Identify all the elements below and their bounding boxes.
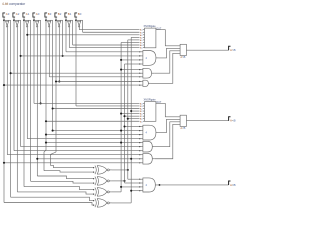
svg-text:A<B: A<B <box>180 126 185 130</box>
svg-text:A=B: A=B <box>230 183 236 187</box>
and gate AND4 <box>143 125 156 140</box>
wire output A=B <box>160 184 229 186</box>
wire rail A0c <box>40 20 42 103</box>
wire feed <box>73 44 140 46</box>
wire rail B3i <box>48 27 50 77</box>
wire staircase lane <box>4 203 94 206</box>
wire rail B2i <box>58 27 60 81</box>
wire staircase lane <box>17 192 94 194</box>
wire U2 out <box>156 103 180 116</box>
wire B1 fanout <box>66 19 73 21</box>
wire X2 net <box>112 180 125 182</box>
wire feed <box>79 29 139 31</box>
svg-text:A>B: A>B <box>180 55 185 59</box>
wire rail B2 <box>55 20 57 152</box>
inverter B3 <box>48 21 51 25</box>
wire feed <box>27 138 139 140</box>
wire B2 fanout <box>56 19 63 21</box>
wire and6 out <box>155 124 180 158</box>
wire feed <box>125 126 140 128</box>
input pin B3 <box>45 13 47 17</box>
wire U1 out <box>156 30 180 46</box>
wire staircase lane <box>24 187 94 190</box>
wire feed <box>4 162 140 164</box>
or gate OR1 <box>180 44 186 55</box>
input pin A2 <box>13 13 15 17</box>
node A0 <box>33 19 35 21</box>
wire feed <box>131 110 139 112</box>
wire mid rail M1 <box>120 42 122 191</box>
and gate AND6 <box>143 153 152 164</box>
input pin A1 <box>23 13 25 17</box>
node B1 <box>65 19 67 21</box>
wire rail A2c <box>20 20 22 146</box>
xnor gate XNOR3 <box>95 188 96 197</box>
wire mid rail M2 <box>124 64 126 183</box>
wire feed <box>66 51 140 53</box>
wire rail B0c <box>82 20 84 32</box>
svg-text:A3: A3 <box>6 12 10 16</box>
wire rail B1c <box>72 20 74 45</box>
wire feed <box>131 36 139 38</box>
wire feed <box>121 69 140 71</box>
wire output A&lt;B <box>186 120 228 122</box>
input pin A3 <box>3 13 5 17</box>
svg-text:A2: A2 <box>16 12 20 16</box>
xnor gate XNOR2 <box>95 177 96 186</box>
xnor gate XNOR4 <box>95 199 96 208</box>
inverter A0 <box>36 21 39 25</box>
inverter A2 <box>16 21 19 25</box>
svg-text:A>B: A>B <box>230 48 236 52</box>
wire feed <box>46 134 140 136</box>
wire mid rail M3 <box>127 40 129 179</box>
node B2 <box>55 19 57 21</box>
svg-text:XNORgate: XNORgate <box>144 99 157 102</box>
wire rail A0 <box>33 20 35 103</box>
wire and4 out <box>159 119 181 132</box>
wire pin B1 <box>65 17 67 20</box>
node A3 <box>3 19 5 21</box>
wire rail B3 <box>45 20 47 150</box>
node AND7 out <box>159 184 161 186</box>
output pin A=B <box>229 181 231 185</box>
and gate AND7 <box>143 178 155 192</box>
wire staircase lane <box>37 176 94 179</box>
wire feed <box>34 102 140 104</box>
wire feed <box>11 72 140 74</box>
wire pin A1 <box>23 17 25 20</box>
wire feed <box>125 63 140 65</box>
input pin A0 <box>33 13 35 17</box>
svg-text:B0: B0 <box>78 12 82 16</box>
wire B2 jog <box>50 152 56 165</box>
output pin A&gt;B <box>229 46 231 50</box>
input pin B1 <box>65 13 67 17</box>
wire mid rail M4 <box>130 37 132 203</box>
wire rail A3 <box>3 20 5 202</box>
wire rail A1i <box>26 27 28 139</box>
wire feed <box>128 178 140 180</box>
wire and3 out <box>151 53 180 83</box>
svg-text:4-bit comparator: 4-bit comparator <box>2 2 26 6</box>
wire feed <box>76 105 140 107</box>
wire feed <box>46 142 140 144</box>
subcircuit box U1 <box>145 28 156 48</box>
wire feed <box>121 41 139 43</box>
svg-text:XNORgate: XNORgate <box>144 25 157 28</box>
wire staircase lane <box>11 197 95 201</box>
and gate AND2 <box>143 68 152 78</box>
wire feed <box>7 154 139 156</box>
wire feed <box>121 59 140 61</box>
wire staircase lane <box>44 171 94 172</box>
wire rail A3i <box>6 27 8 155</box>
wire pin B0 <box>75 17 77 20</box>
svg-text:A<B: A<B <box>230 119 236 123</box>
wire B0 fanout <box>76 19 83 21</box>
svg-text:A1: A1 <box>26 12 30 16</box>
node A2 <box>13 19 15 21</box>
wire feed <box>69 47 139 49</box>
wire feed <box>121 186 140 188</box>
wire feed <box>121 113 139 115</box>
svg-text:B3: B3 <box>48 12 52 16</box>
node B3 <box>45 19 47 21</box>
wire feed <box>21 55 140 57</box>
wire A2 fanout <box>14 19 21 21</box>
wire and1 out <box>159 48 181 58</box>
or gate OR2 <box>180 115 186 126</box>
subcircuit box U2 <box>145 102 156 122</box>
wire feed <box>21 146 140 148</box>
wire feed <box>56 81 140 83</box>
inverter B2 <box>58 21 61 25</box>
wire A3 fanout <box>4 19 11 21</box>
and gate AND1 <box>143 51 156 66</box>
inverter B0 <box>78 21 81 25</box>
node B2c join <box>62 55 64 57</box>
wire staircase lane <box>31 181 95 183</box>
node A1 <box>23 19 25 21</box>
node A0c join <box>40 102 42 104</box>
wire rail A3c <box>10 20 12 197</box>
wire rail A1c <box>30 20 32 181</box>
wire rail A0i <box>36 27 38 176</box>
wire rail A1 <box>23 20 25 186</box>
svg-text:A0: A0 <box>36 12 40 16</box>
wire pin A2 <box>13 17 15 20</box>
wire B3 fanout <box>46 19 53 21</box>
wire feed <box>128 39 140 41</box>
xnor gate XNOR1 <box>95 166 96 175</box>
wire rail B0i <box>78 27 80 30</box>
inverter A3 <box>6 21 9 25</box>
wire feed <box>125 182 140 184</box>
wire feed <box>37 158 139 160</box>
wire X3 net <box>112 169 128 171</box>
wire feed <box>53 108 140 110</box>
wire rail A2i <box>16 27 18 192</box>
wire rail B1i <box>68 27 70 47</box>
wire feed <box>46 120 140 122</box>
inverter B1 <box>68 21 71 25</box>
wire feed <box>4 84 140 86</box>
wire pin A3 <box>3 17 5 20</box>
wire rail B2c <box>62 20 64 56</box>
wire feed <box>128 118 140 120</box>
input pin B0 <box>75 13 77 17</box>
svg-text:B2: B2 <box>58 12 62 16</box>
wire feed <box>125 115 140 117</box>
input pin B2 <box>55 13 57 17</box>
wire A0 fanout <box>34 19 41 21</box>
and gate AND3 <box>143 80 148 86</box>
wire B3 jog <box>44 150 46 171</box>
wire feed <box>53 130 140 132</box>
wire feed <box>27 34 139 36</box>
and gate AND5 <box>143 141 152 152</box>
wire feed <box>83 31 140 33</box>
wire rail B1 <box>65 20 67 52</box>
wire feed <box>131 190 140 192</box>
svg-text:B1: B1 <box>68 12 72 16</box>
wire rail B0 <box>75 20 77 106</box>
wire feed <box>49 76 139 78</box>
wire and5 out <box>155 122 180 147</box>
wire feed <box>14 150 140 152</box>
node B0 <box>75 19 77 21</box>
wire staircase lane <box>50 165 94 167</box>
node B2i join <box>58 80 60 82</box>
wire pin A0 <box>33 17 35 20</box>
wire rail B3c <box>52 20 54 130</box>
wire output A&gt;B <box>186 49 228 51</box>
wire A1 fanout <box>24 19 31 21</box>
wire X0 net <box>112 202 131 204</box>
wire rail A2 <box>13 20 15 150</box>
output pin A&lt;B <box>229 117 231 121</box>
wire and2 out <box>154 51 180 73</box>
wire pin B2 <box>55 17 57 20</box>
wire X1 net <box>112 191 121 193</box>
inverter A1 <box>26 21 29 25</box>
wire pin B3 <box>45 17 47 20</box>
